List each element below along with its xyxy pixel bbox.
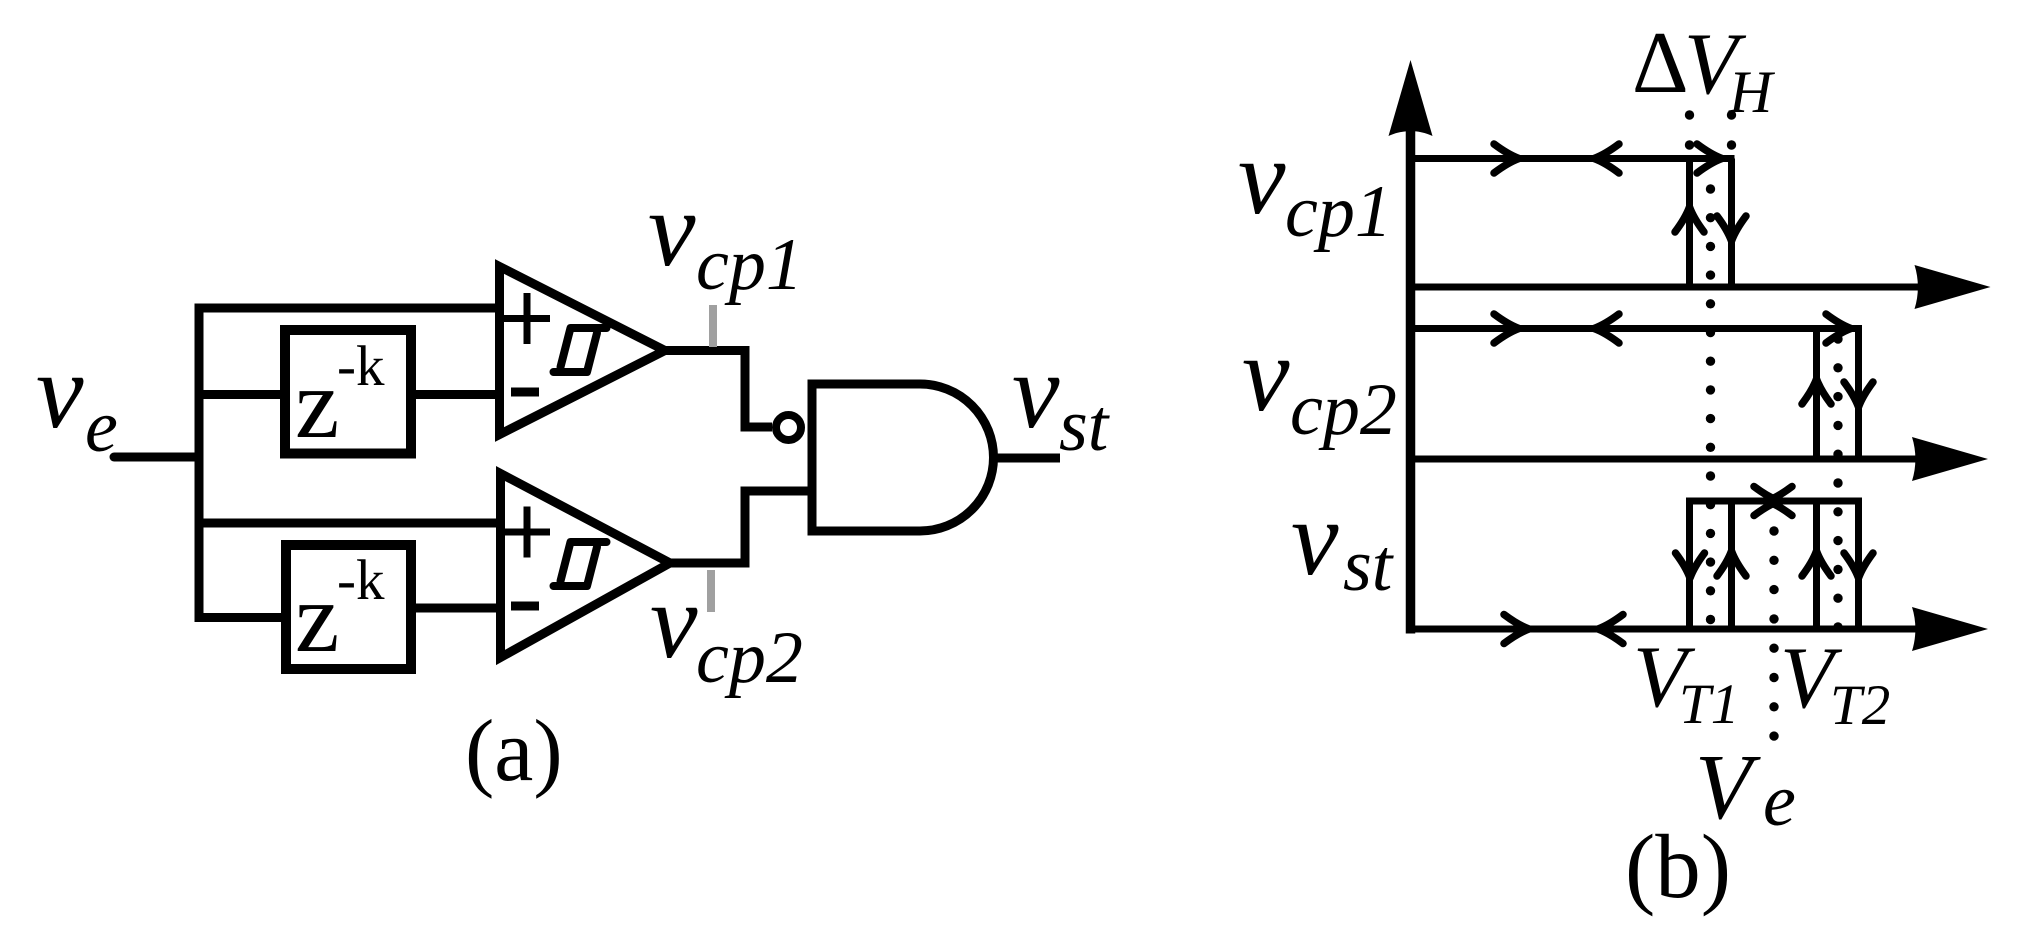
wire comparator U1 output to NAND inverted input <box>666 351 772 428</box>
trace v_cp2 baseline arrowhead <box>1912 437 1988 481</box>
dotted hysteresis bound left (above v_cp1) <box>1685 110 1694 149</box>
svg-text:v: v <box>650 563 698 681</box>
svg-text:(b): (b) <box>1625 816 1731 917</box>
comparator U2 plus sign <box>504 507 550 558</box>
NAND gate U3 inverter bubble <box>776 415 801 440</box>
svg-text:T2: T2 <box>1830 674 1890 737</box>
label V_T1 <box>1633 629 1739 736</box>
trace v_cp2 arrows <box>1494 314 1519 343</box>
trace v_cp2 high level line <box>1411 325 1863 332</box>
comparator U2 minus sign <box>511 602 539 611</box>
dotted line V_T2 <box>1833 334 1842 631</box>
comparator U1 hysteresis symbol <box>554 328 607 372</box>
svg-text:Δ: Δ <box>1632 15 1689 112</box>
wire comparator U2 output to NAND input <box>671 491 812 563</box>
delay block Z2 label z^-k <box>295 549 385 673</box>
svg-text:v: v <box>1291 480 1339 598</box>
delay block Z2 (z^-k) <box>286 545 411 669</box>
trace v_cp1 high level line <box>1411 155 1735 162</box>
wire v_e input <box>114 453 199 462</box>
svg-text:z: z <box>295 562 339 673</box>
dotted line V_e <box>1769 526 1778 741</box>
trace v_cp1 falling edge at V_T1+ <box>1728 159 1735 288</box>
dotted line V_T1 <box>1706 184 1715 624</box>
trace v_st left pulse edges <box>1686 501 1693 629</box>
trace v_st baseline arrowhead <box>1912 607 1988 651</box>
svg-text:-k: -k <box>337 549 385 612</box>
trace v_cp2 label <box>1242 316 1397 451</box>
trace v_cp1 arrows <box>1494 144 1519 173</box>
svg-text:v: v <box>1242 316 1290 434</box>
trace v_cp2 edge at V_T2- <box>1813 329 1820 460</box>
label V_e <box>1695 736 1796 842</box>
trace v_cp1 baseline (x axis) <box>1411 284 1957 291</box>
wire input bus vertical <box>195 304 204 623</box>
node v_st label <box>1012 333 1111 467</box>
trace v_st high segment <box>1686 498 1862 505</box>
svg-text:v: v <box>36 333 84 451</box>
svg-text:H: H <box>1728 59 1776 125</box>
node v_cp2 label <box>650 563 803 699</box>
svg-text:v: v <box>1012 333 1060 451</box>
svg-text:cp2: cp2 <box>696 617 803 699</box>
comparator U1 plus sign <box>504 293 550 344</box>
delay block Z1 (z^-k) <box>285 330 411 454</box>
svg-text:T1: T1 <box>1679 673 1739 736</box>
node v_e label <box>36 333 118 468</box>
node v_cp1 gray tick <box>709 305 717 347</box>
svg-text:e: e <box>1763 760 1796 842</box>
wire bus to delay block Z1 input <box>195 390 286 399</box>
svg-text:v: v <box>648 171 696 289</box>
trace v_st label <box>1291 480 1395 607</box>
label V_T2 <box>1780 630 1890 737</box>
svg-text:-k: -k <box>337 335 385 398</box>
wire delay Z1 output to comparator U1 - input <box>416 390 499 399</box>
svg-text:z: z <box>295 348 339 459</box>
wire bus to delay block Z2 input <box>195 613 287 622</box>
node v_cp2 gray tick <box>707 570 715 612</box>
comparator U1 minus sign <box>511 388 539 397</box>
NAND gate U3 body <box>812 384 994 531</box>
svg-text:st: st <box>1059 385 1111 467</box>
comparator U2 (Schmitt trigger) triangle <box>501 474 671 658</box>
wire bus to comparator U2 + input <box>195 519 501 528</box>
trace v_cp2 baseline (x axis) <box>1411 456 1953 463</box>
trace v_cp1 falling edge at V_T1- <box>1686 159 1693 288</box>
svg-text:(a): (a) <box>465 703 563 800</box>
y-axis <box>1406 120 1416 634</box>
node v_cp1 label <box>648 171 803 306</box>
trace v_st arrows <box>1754 487 1779 516</box>
svg-text:st: st <box>1343 525 1395 607</box>
wire bus to comparator U1 + input <box>195 304 500 313</box>
trace v_cp2 edge at V_T2+ <box>1855 329 1862 460</box>
trace v_cp1 label <box>1238 119 1392 253</box>
dotted hysteresis bound right (above v_cp1) <box>1727 110 1736 149</box>
label Delta V_H <box>1632 15 1776 125</box>
trace v_st baseline (x axis) <box>1411 626 1953 633</box>
svg-text:v: v <box>1238 119 1286 237</box>
comparator U1 (Schmitt trigger) triangle <box>500 267 666 435</box>
svg-text:cp1: cp1 <box>696 224 803 306</box>
trace v_cp1 baseline arrowhead <box>1915 265 1991 309</box>
wire NAND output v_st <box>993 454 1060 463</box>
svg-text:cp2: cp2 <box>1290 369 1397 451</box>
trace v_st right pulse edges <box>1813 501 1820 629</box>
delay block Z1 label z^-k <box>295 335 385 459</box>
svg-text:cp1: cp1 <box>1285 171 1392 253</box>
comparator U2 hysteresis symbol <box>554 542 607 586</box>
y-axis arrowhead <box>1389 60 1433 136</box>
wire delay Z2 output to comparator U2 - input <box>416 604 500 613</box>
